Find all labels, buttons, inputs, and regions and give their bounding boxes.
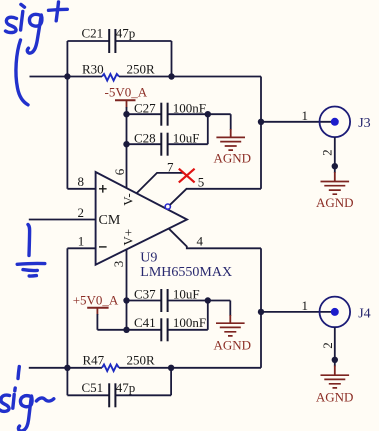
svg-text:250R: 250R [127,353,156,368]
pin number 1 [78,234,85,249]
svg-text:AGND: AGND [214,151,252,166]
pin number 7 [167,160,174,175]
ground AGND (J3) [316,182,354,211]
svg-text:R30: R30 [82,61,104,76]
wire: R30 to node B [119,76,172,78]
pin 3 wire [126,250,128,301]
wire: sig+ input to node A [30,76,68,78]
handwritten annotation: ground at CM [17,225,45,277]
svg-text:V-: V- [121,193,136,206]
pin number 5 [198,174,205,189]
capacitor C28 [127,114,208,156]
svg-text:C21: C21 [82,26,104,41]
svg-text:U9: U9 [140,251,157,266]
svg-text:V+: V+ [121,229,136,246]
pin number 1 (J3) [302,108,309,123]
wire: right column bottom (pin4 to J4/R47) [260,248,262,367]
svg-text:AGND: AGND [316,195,354,210]
svg-text:1: 1 [302,108,309,123]
svg-text:1: 1 [78,234,85,249]
junction node C (67.4,367.8) [64,365,70,371]
svg-text:C37: C37 [134,287,156,302]
svg-text:LMH6550MAX: LMH6550MAX [140,265,232,280]
pin 8 wire [67,77,95,189]
svg-text:47p: 47p [116,380,136,395]
svg-text:3: 3 [111,261,126,268]
junction (126.5,144.2) [123,141,129,147]
junction (261,121.8) [258,119,264,125]
power port +5V0_A [73,293,119,315]
capacitor C41 [127,301,208,342]
capacitor C27 [127,101,208,126]
pin 1 wire [67,248,95,367]
no-ERC X mark on pin 7 [179,169,195,183]
svg-text:J4: J4 [358,306,370,321]
connector J4 [320,297,371,328]
pin 7 wire (no connect) [137,173,183,193]
wire: node A to R30 [67,76,102,78]
svg-text:2: 2 [320,342,335,349]
svg-text:+5V0_A: +5V0_A [73,293,119,308]
wire: J3 pin 2 to ground [334,137,336,181]
junction (261,311.9) [258,309,264,315]
svg-text:AGND: AGND [316,389,354,404]
svg-text:2: 2 [78,205,85,220]
pin number 1 (J4) [302,298,309,313]
pin number 2 (J3, rotated) [320,149,335,156]
capacitor C21 [67,26,171,77]
junction node D (171.1,367.8) [168,365,174,371]
pin 2 wire (CM) [29,219,96,221]
wire: node D to right column [171,367,261,369]
wire: J4 pin 2 to ground [334,327,336,375]
wire: C37 node to AGND stem [208,301,231,324]
junction (207.8,300.5) [205,297,211,303]
wire: sig- input to node C [29,367,68,369]
ground AGND (decoupling top) [214,137,252,165]
pin number 4 [197,234,204,249]
handwritten annotation: sig+ [6,2,68,105]
wire: J4 pin 1 feed [261,311,335,313]
svg-text:2: 2 [320,149,335,156]
svg-text:R47: R47 [83,353,105,368]
svg-text:100nF: 100nF [173,101,206,116]
power port -5V0_A [105,84,148,114]
pin number 6 (rotated) [112,168,127,175]
svg-text:10uF: 10uF [173,131,200,146]
junction J3 pin2 (334.8,166.4) [332,163,338,169]
svg-text:-5V0_A: -5V0_A [105,84,148,99]
junction node B (171.5,76.5) [168,73,174,79]
svg-text:8: 8 [78,174,85,189]
wire: node C to R47 [67,367,102,369]
svg-text:5: 5 [198,174,205,189]
svg-text:C27: C27 [134,101,156,116]
ground AGND (J4) [316,375,354,404]
svg-text:C28: C28 [134,131,156,146]
op-amp plus mark (pin 8 input) [99,185,107,193]
wire: J3 pin 1 feed [261,121,335,123]
connector J3 [320,107,371,138]
junction (207.8,114.2) [205,111,211,117]
pin 6 wire [126,144,128,188]
pin number 3 (rotated) [111,261,126,268]
wire: node B to right column top [172,76,262,78]
junction J4 pin2 (334.8,356.4) [332,357,338,363]
junction (126.5,300.5) [123,297,129,303]
svg-text:CM: CM [99,213,121,228]
svg-text:C41: C41 [134,315,156,330]
op-amp minus mark (pin 1 input) [99,246,107,248]
pin 5 wire [170,189,261,205]
junction node A (67.4,76.5) [64,73,70,79]
op-amp V+ label (rotated) [121,229,136,246]
capacitor C51 [67,368,171,408]
wire: +5V0_A to C41 node [97,314,126,330]
svg-text:4: 4 [197,234,204,249]
pin number 2 [78,205,85,220]
capacitor C37 [127,287,208,312]
junction (126.5,114.2) [123,111,129,117]
wire: C27 node to AGND stem [208,114,231,137]
svg-text:47p: 47p [116,26,136,41]
svg-text:C51: C51 [82,380,104,395]
wire: right column top (node B net to J3/pin5) [260,77,262,189]
svg-text:6: 6 [112,168,127,175]
svg-text:1: 1 [302,298,309,313]
svg-text:7: 7 [167,160,174,175]
junction (126.5,329.8) [123,327,129,333]
svg-text:AGND: AGND [214,338,252,353]
svg-text:10uF: 10uF [173,287,200,302]
pin 4 wire [169,229,261,249]
svg-text:100nF: 100nF [173,315,206,330]
resistor R47 [83,353,156,372]
pin number 8 [78,174,85,189]
handwritten annotation: sig- [0,367,54,431]
svg-text:250R: 250R [127,61,156,76]
wire: R47 to node D [119,367,171,369]
op-amp V- label (rotated) [121,193,136,206]
svg-text:J3: J3 [358,116,370,131]
pin number 2 (J4, rotated) [320,342,335,349]
resistor R30 [82,61,155,80]
op-amp CM label [99,213,121,228]
output bubble (pin 5 inverting) [165,204,170,209]
ground AGND (decoupling bottom) [214,323,252,352]
op-amp U9 triangle [96,172,232,280]
